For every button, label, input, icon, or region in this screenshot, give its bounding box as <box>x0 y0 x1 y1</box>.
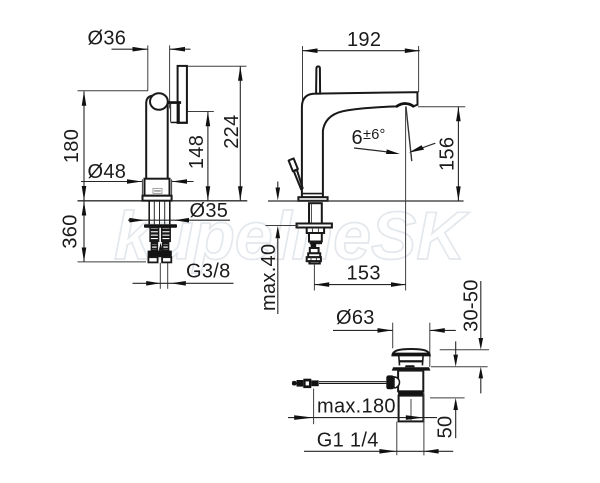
svg-text:192: 192 <box>347 29 381 51</box>
svg-text:180: 180 <box>61 129 83 163</box>
svg-text:50: 50 <box>434 416 456 439</box>
svg-text:G3/8: G3/8 <box>186 260 231 282</box>
svg-text:153: 153 <box>347 263 381 285</box>
svg-text:148: 148 <box>186 135 208 169</box>
svg-text:Ø63: Ø63 <box>336 307 375 329</box>
svg-text:max.180: max.180 <box>317 395 396 417</box>
svg-text:G1 1/4: G1 1/4 <box>317 429 379 451</box>
svg-text:Ø48: Ø48 <box>88 161 127 183</box>
svg-text:max.40: max.40 <box>258 244 280 311</box>
svg-text:Ø35: Ø35 <box>190 200 229 222</box>
svg-text:360: 360 <box>60 214 82 248</box>
svg-text:224: 224 <box>221 114 243 148</box>
svg-text:30-50: 30-50 <box>461 279 483 332</box>
svg-text:Ø36: Ø36 <box>88 27 127 49</box>
svg-text:156: 156 <box>436 137 458 171</box>
